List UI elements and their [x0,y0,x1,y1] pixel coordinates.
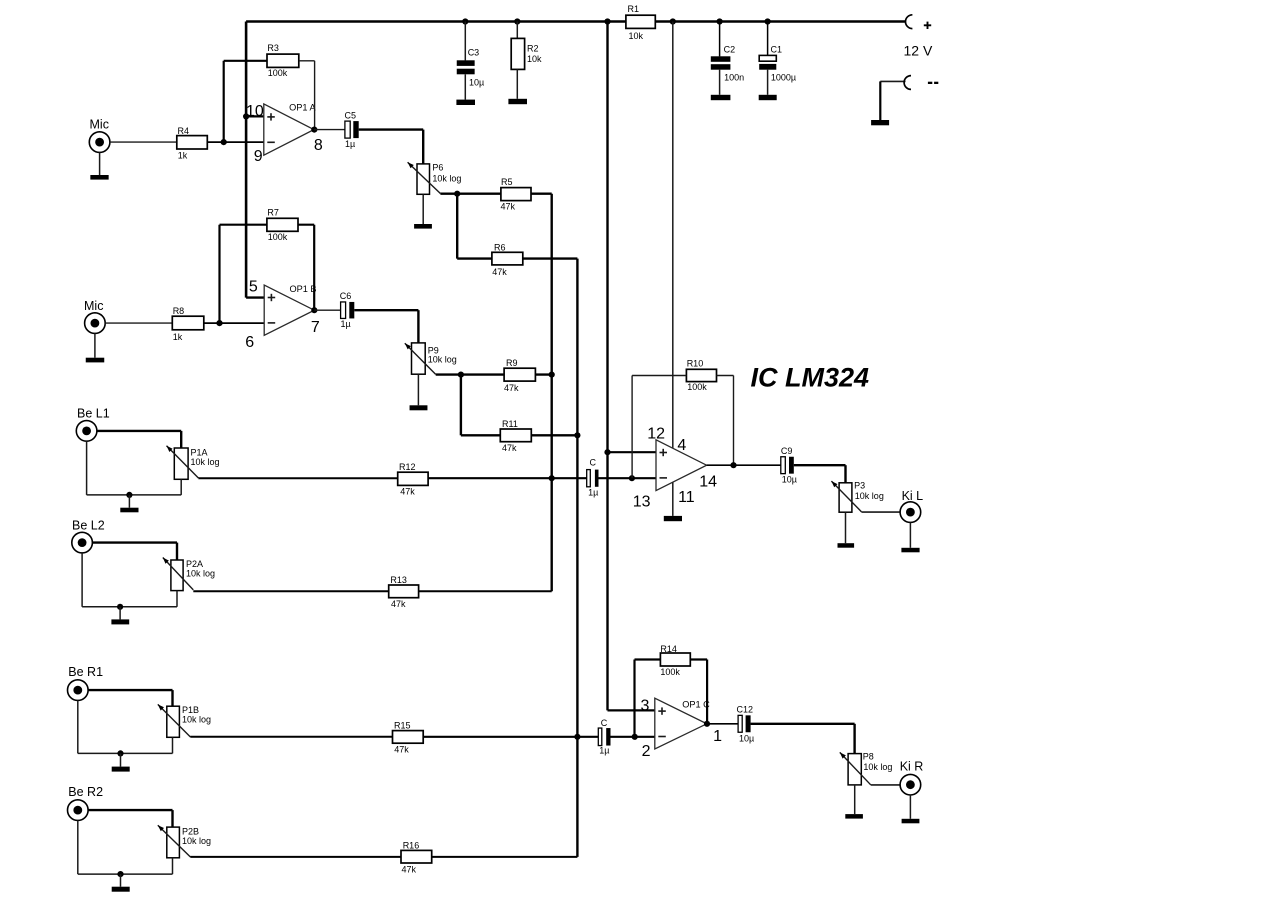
connector Be L2 [72,518,105,552]
resistor R15 [393,721,424,755]
wire R11 to right summing bus [531,434,577,436]
wire junction down to R6 [457,194,492,259]
capacitor C9 [781,446,797,484]
wire - terminal to ground [879,81,881,120]
svg-text:1k: 1k [178,150,188,160]
capacitor C (right mix) 1µ [598,718,610,756]
wire OP1D pin 11 to ground [672,482,674,516]
label pin 4 [677,437,686,454]
svg-text:10µ: 10µ [782,475,797,485]
ground P8 [845,814,863,819]
resistor R9 [504,358,535,393]
wire summing to C left [428,477,587,479]
svg-text:Be R2: Be R2 [68,785,103,799]
capacitor C6 [340,291,355,329]
ground Ki R [902,819,920,824]
wire Mic1 to R4 [110,141,177,143]
svg-text:1µ: 1µ [341,319,351,329]
wire OP1B output [314,309,340,311]
wire summing to C left (right mix) [423,736,598,738]
resistor R4 [177,126,208,161]
svg-text:R2: R2 [527,44,539,54]
ground C3 [456,100,475,105]
resistor R6 [492,242,523,277]
wire Be R2 to P2B top [88,810,172,827]
wire P9 wiper [436,373,461,375]
svg-text:47k: 47k [502,443,517,453]
svg-text:Be L2: Be L2 [72,518,105,532]
svg-text:P1A: P1A [191,447,208,457]
op-amp U1C OP1 C [655,698,710,749]
svg-text:C2: C2 [724,45,736,55]
wire Be L2 ground loop [82,553,177,607]
wire C2 upper stem [719,22,721,57]
wire +12V rail right segment [655,20,906,22]
svg-text:R3: R3 [267,43,279,53]
svg-text:47k: 47k [501,202,516,212]
label pin 5 [249,278,258,295]
connector + terminal [906,15,932,29]
wire P8 wiper to Ki R [871,784,901,786]
wire P6 wiper [440,192,457,194]
svg-text:12 V: 12 V [904,43,933,59]
wire Ki L to ground [909,522,911,547]
connector Be R2 [68,785,104,820]
wire C9 to P3 [794,465,846,483]
wire R8 to OP1B inverting input [204,322,264,324]
svg-text:47k: 47k [402,865,417,875]
node OP1A output junction [311,127,317,133]
svg-text:10k log: 10k log [855,491,884,501]
label pin 2 [642,743,651,760]
node R11-bus junction [574,432,580,438]
label pin 11 [678,489,695,506]
wire C2 lower stem [719,70,721,95]
svg-text:10k: 10k [629,31,644,41]
wire Be R1 ground stem [120,753,122,766]
node rail-bus junction [604,18,610,24]
wire Mic2 to R8 [105,322,172,324]
svg-text:R7: R7 [267,208,279,218]
label IC LM324 [751,363,870,393]
capacitor C12 [737,705,755,744]
wire C1 upper stem [767,22,769,56]
wire OP1D output [707,464,781,466]
svg-text:10k log: 10k log [428,355,457,365]
wire junction to R5 [457,192,501,194]
svg-text:10k log: 10k log [863,762,892,772]
svg-text:OP1 A: OP1 A [289,103,316,113]
svg-text:7: 7 [311,319,320,336]
svg-text:4: 4 [677,437,686,454]
svg-text:14: 14 [699,473,717,490]
node R10-input junction [629,475,635,481]
wire R14 right loop [690,660,707,724]
wire P1B wiper to R15 [190,736,392,738]
wire R7 right loop [298,225,314,311]
node R12-bus junction [549,475,555,481]
wire P3 to ground [845,512,847,543]
wire OP1C output [707,723,738,725]
ground P9 [410,405,428,410]
svg-text:8: 8 [314,137,323,154]
wire Be L2 to P2A top [92,543,177,560]
wire R9 to left summing bus [535,373,551,375]
ground C2 [711,95,731,100]
svg-text:C12: C12 [737,705,754,715]
svg-text:IC LM324: IC LM324 [751,363,870,393]
svg-text:OP1 B: OP1 B [290,284,317,294]
wire R3 left loop [224,61,267,142]
wire C1 lower stem [767,70,769,95]
wire P9 to ground [417,374,419,405]
ground C1 [759,95,777,100]
svg-text:1: 1 [713,728,722,745]
svg-text:Ki R: Ki R [900,760,924,774]
ground Ki L [901,548,919,553]
wire R10 right loop [717,376,734,466]
resistor R8 [172,306,204,342]
wire C3 lower stem [464,74,466,99]
svg-text:100n: 100n [724,73,744,83]
svg-text:10k log: 10k log [182,715,211,725]
node OP1B output junction [311,307,317,313]
resistor R10 [686,359,716,392]
label pin 7 [311,319,320,336]
svg-text:1000µ: 1000µ [771,73,796,83]
wire P3 wiper to Ki L [861,511,900,513]
op-amp U1A OP1 A [264,103,317,156]
svg-text:Be L1: Be L1 [77,406,110,420]
wire R3 right loop [299,61,315,130]
svg-text:R6: R6 [494,242,506,252]
svg-text:C5: C5 [345,111,357,121]
ground OP1D pin 11 [664,516,682,521]
wire R4 to OP1A inverting input [207,141,263,143]
wire P6 to ground [422,194,424,224]
node OP1C output junction [704,721,710,727]
ground R2 [508,99,527,104]
wire bus rail to op-amp non-inverting inputs [606,22,608,711]
wire Be L1 ground loop [87,441,182,495]
potentiometer P9 [405,343,457,375]
svg-text:100k: 100k [660,667,680,677]
wire R5 to left summing bus [531,192,552,194]
resistor R16 [401,840,432,874]
wire +12V rail left segment [246,20,626,23]
node Be R2 ground junction [117,871,123,877]
svg-text:10µ: 10µ [739,733,754,743]
wire C to OP1D inverting input [599,477,657,479]
svg-text:P2A: P2A [186,559,203,569]
label pin 13 [633,493,651,510]
potentiometer P3 [831,480,883,512]
label pin 6 [245,334,254,351]
svg-text:100k: 100k [687,382,707,392]
svg-text:R16: R16 [403,840,420,850]
resistor R5 [501,177,532,212]
wire OP1A + stub [246,115,264,117]
svg-text:C: C [601,718,608,728]
potentiometer P2A [163,558,215,591]
wire C3 upper stem [464,22,466,61]
ground P3 [838,543,855,548]
wire R16 to right summing bus [432,856,578,858]
svg-text:1µ: 1µ [345,139,355,149]
wire R7 left loop [220,225,267,323]
wire OP1D pin 4 stem [672,22,674,450]
wire R10 left loop [632,376,686,479]
wire R13 to left summing bus [419,590,552,592]
wire P8 to ground [854,785,856,814]
label pin 12 [647,426,665,443]
svg-text:C1: C1 [771,45,783,55]
node Be L2 ground junction [117,604,123,610]
wire right summing bus [576,259,578,857]
svg-text:R13: R13 [390,575,407,585]
node rail-R2 junction [514,18,520,24]
svg-text:1µ: 1µ [588,487,598,497]
svg-text:10k: 10k [527,54,542,64]
svg-text:R8: R8 [173,306,185,316]
wire Mic1 to ground [99,152,101,175]
wire OP1C non-inverting input [608,709,655,711]
label pin 10 [246,103,264,120]
node R3/R4 junction [221,139,227,145]
svg-text:6: 6 [245,334,254,351]
node P9 wiper junction [458,372,464,378]
wire P2B wiper to R16 [190,856,401,858]
svg-text:100k: 100k [268,68,288,78]
svg-text:100k: 100k [268,232,288,242]
svg-text:R14: R14 [660,644,677,654]
ground Mic2 [86,358,105,363]
potentiometer P2B [158,825,211,858]
connector Ki L [900,489,923,522]
wire P1A wiper to R12 [198,477,397,479]
potentiometer P6 [408,162,462,194]
svg-text:13: 13 [633,493,651,510]
svg-text:OP1 C: OP1 C [682,699,710,709]
svg-text:Mic: Mic [90,118,109,132]
wire Be L1 to P1A top [97,431,181,448]
wire OP1D non-inverting input [608,451,657,453]
resistor R14 [660,644,690,677]
connector Mic 1 [89,118,110,153]
wire junction down to R11 [461,375,500,436]
svg-text:C: C [590,458,597,468]
svg-text:47k: 47k [504,383,519,393]
svg-text:R5: R5 [501,177,513,187]
node rail-C2 junction [717,18,723,24]
svg-text:10k log: 10k log [191,457,220,467]
node Be L1 ground junction [126,492,132,498]
node R7/R8 junction [216,320,222,326]
svg-text:10k log: 10k log [186,568,215,578]
svg-text:9: 9 [254,148,263,165]
svg-text:C3: C3 [468,48,480,58]
node P6 wiper junction [454,191,460,197]
svg-text:R9: R9 [506,358,518,368]
resistor R7 [267,208,298,243]
svg-text:C9: C9 [781,446,793,456]
svg-text:12: 12 [647,426,665,443]
label pin 14 [699,473,717,490]
node R15-bus junction [574,734,580,740]
ground Be L2 [111,619,129,624]
wire C12 to P8 [751,724,855,754]
svg-text:1k: 1k [173,332,183,342]
label pin 1 [713,728,722,745]
label 12 V [904,43,933,59]
svg-text:R12: R12 [399,462,416,472]
svg-text:R11: R11 [502,419,518,429]
capacitor C (left mix) 1µ [587,458,599,498]
svg-text:Mic: Mic [84,299,103,313]
capacitor C5 [345,111,359,149]
node rail-pin4 junction [670,18,676,24]
potentiometer P8 [840,752,893,785]
svg-text:47k: 47k [400,487,415,497]
svg-text:R15: R15 [394,721,411,731]
node rail-C3 junction [462,18,468,24]
wire Ki R to ground [909,795,911,819]
node R10-output junction [730,462,736,468]
connector - terminal [880,76,938,90]
wire R2 lower stem [516,69,518,98]
ground Mic1 [90,175,108,180]
label pin 8 [314,137,323,154]
node rail-C1 junction [765,18,771,24]
wire left bus rail to OP1 inputs [245,22,248,298]
wire Be L1 ground stem [128,495,130,508]
resistor R11 [500,419,531,453]
svg-text:47k: 47k [391,599,406,609]
wire R2 upper stem [516,22,518,39]
svg-text:1µ: 1µ [599,746,609,756]
wire C to OP1C inverting input [611,736,655,738]
svg-text:10: 10 [246,103,264,120]
node R9-bus junction [549,372,555,378]
resistor R13 [389,575,419,609]
wire Be R1 ground loop [78,700,173,753]
svg-text:P1B: P1B [182,705,199,715]
svg-text:C6: C6 [340,291,352,301]
ground P6 [414,224,432,229]
label pin 3 [641,698,650,715]
svg-text:11: 11 [678,489,695,506]
resistor R3 [267,43,299,78]
capacitor C1 [759,45,796,83]
wire Be L2 ground stem [119,607,121,620]
connector Be R1 [68,665,104,700]
wire C6 to P9 [354,310,418,343]
svg-text:R1: R1 [628,4,640,14]
svg-text:P2B: P2B [182,827,199,837]
svg-text:3: 3 [641,698,650,715]
svg-text:P3: P3 [854,480,865,490]
node R14-input junction [632,734,638,740]
svg-text:P6: P6 [432,163,443,173]
node OP1A + junction [243,113,249,119]
svg-text:R10: R10 [687,359,704,369]
potentiometer P1B [158,704,211,737]
svg-text:2: 2 [642,743,651,760]
connector Ki R [900,760,924,796]
connector Be L1 [76,406,109,441]
wire OP1B + input elbow [246,296,264,298]
wire left summing bus [551,194,553,592]
wire Be R1 to P1B top [88,690,172,706]
capacitor C3 [457,48,484,88]
wire Be R2 ground stem [120,874,122,887]
svg-text:Ki L: Ki L [902,489,924,503]
svg-text:R4: R4 [178,126,190,136]
label pin 9 [254,148,263,165]
resistor R12 [398,462,428,496]
resistor R1 [626,4,655,41]
svg-text:P8: P8 [863,752,874,762]
ground Be R1 [112,767,130,772]
ground Be L1 [120,508,138,513]
op-amp U1B OP1 B [264,284,316,335]
op-amp U1D OP1 D [656,440,707,491]
svg-text:47k: 47k [394,745,409,755]
svg-text:10µ: 10µ [469,77,484,87]
wire Be R2 ground loop [78,820,173,874]
wire OP1A output [314,129,345,131]
wire junction to R9 [461,373,504,375]
capacitor C2 [711,45,744,83]
wire R14 left loop [635,660,661,737]
wire R6 to right summing bus [523,257,578,259]
svg-text:5: 5 [249,278,258,295]
connector Mic 2 [84,299,105,333]
svg-text:47k: 47k [492,267,507,277]
node Be R1 ground junction [117,750,123,756]
ground Be R2 [112,887,130,892]
svg-text:Be R1: Be R1 [68,665,103,679]
node bus-OP1D + junction [604,449,610,455]
potentiometer P1A [167,446,220,480]
wire P2A wiper to R13 [193,590,388,592]
ground - terminal [871,120,889,125]
wire Mic2 to ground [94,333,96,357]
wire C5 to P6 [359,130,424,164]
svg-text:10k log: 10k log [432,173,461,183]
resistor R2 [511,38,542,69]
svg-text:10k log: 10k log [182,836,211,846]
